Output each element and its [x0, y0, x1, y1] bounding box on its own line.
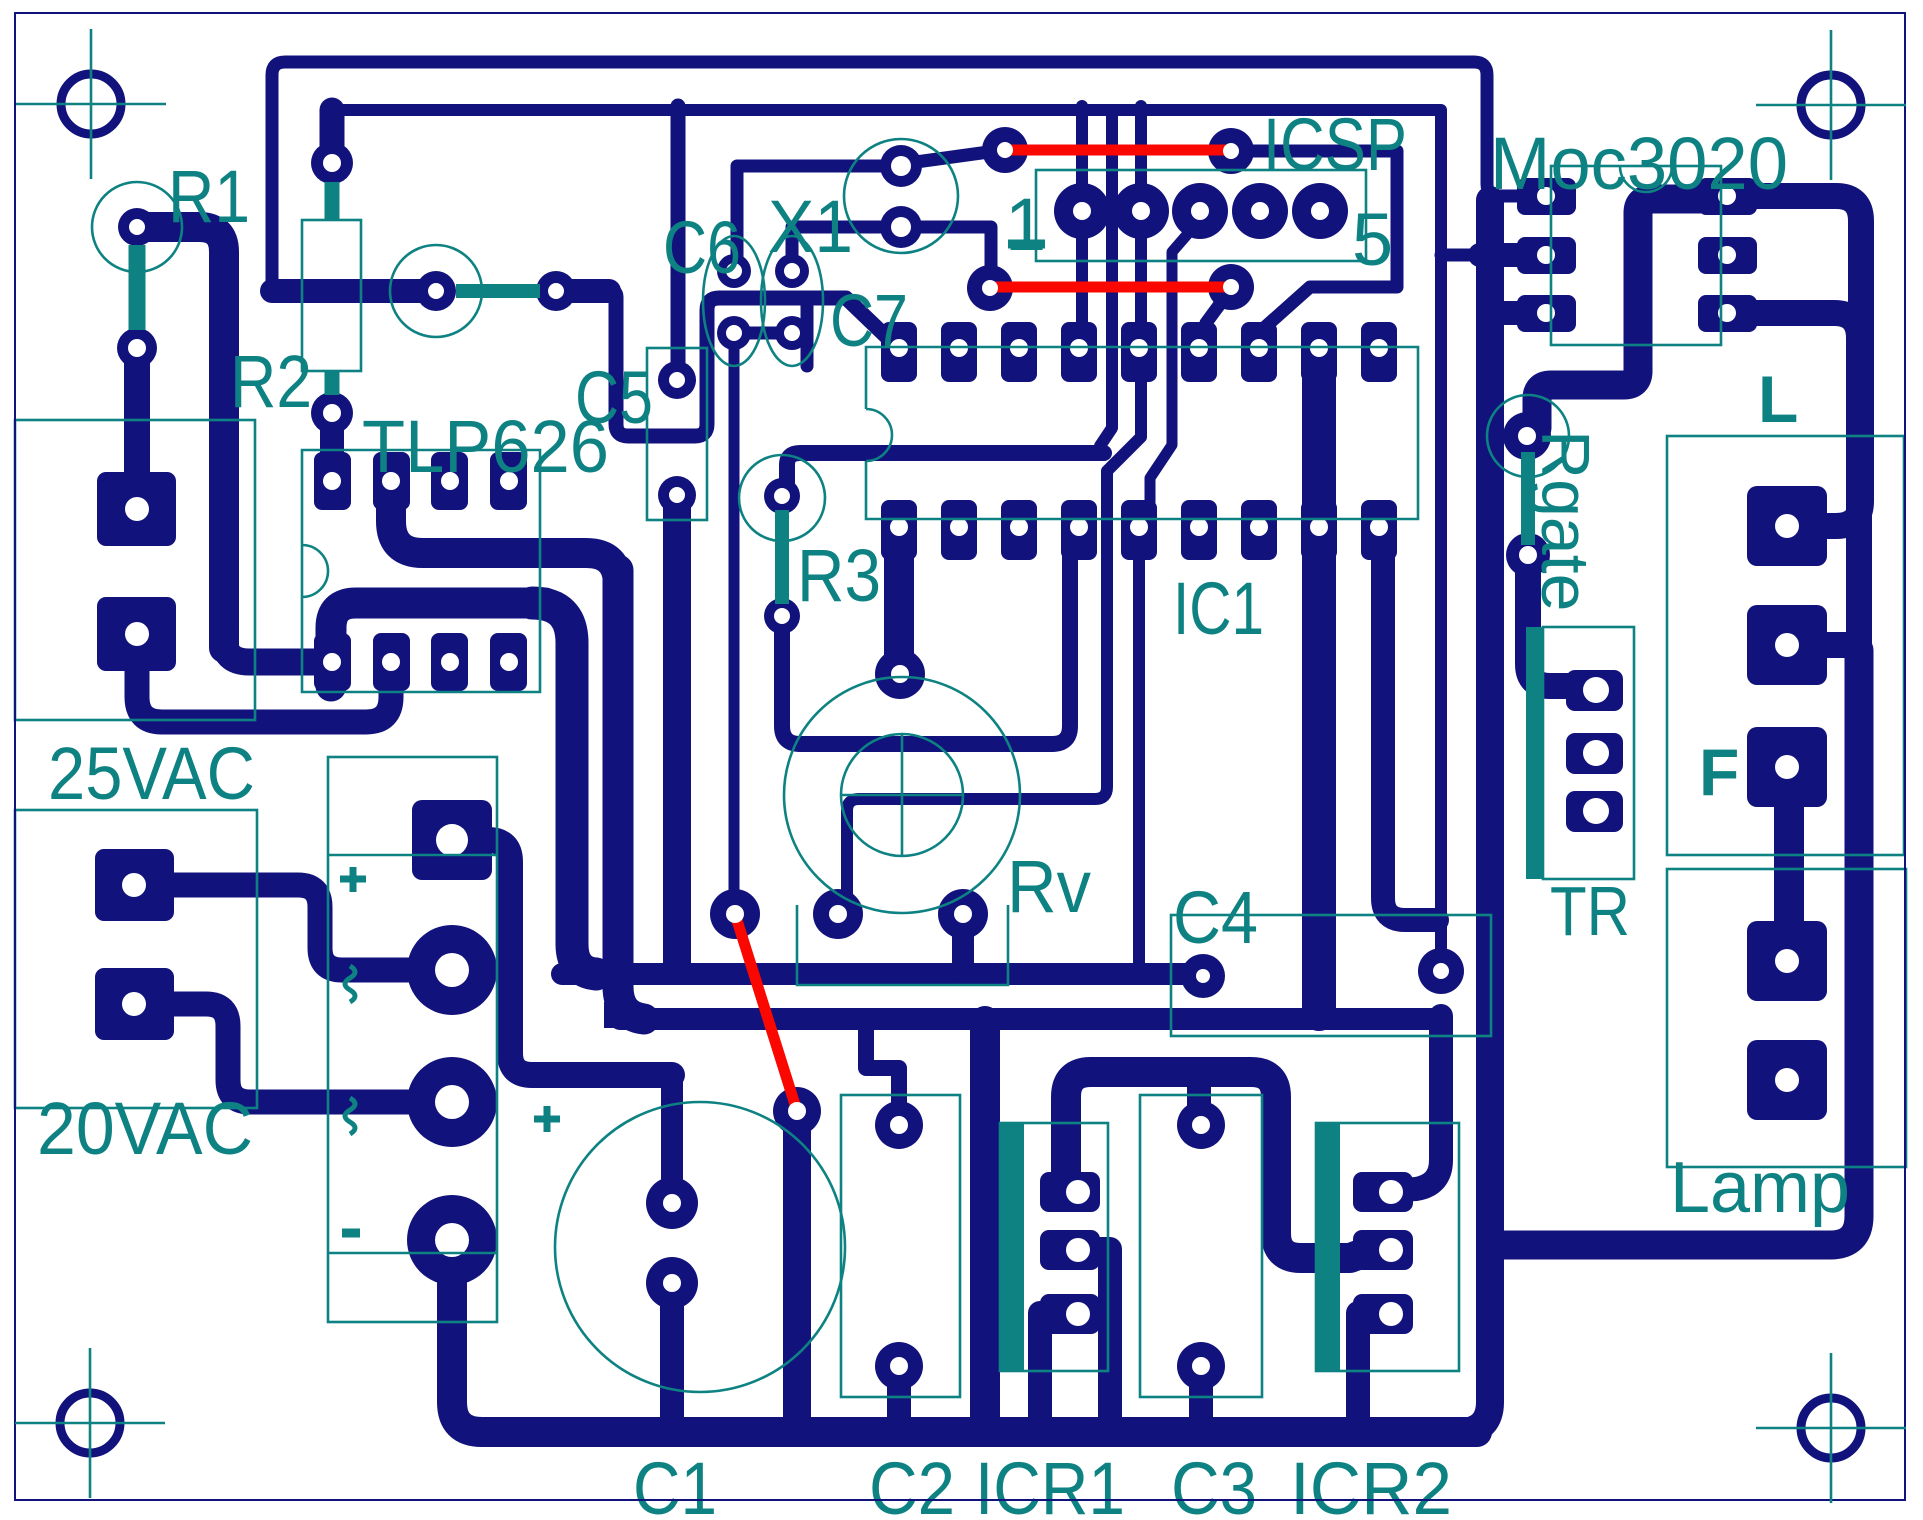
hole X1 [891, 156, 911, 176]
wire bus2 right end down to ICR2 pin1 [1385, 1016, 1441, 1191]
wire IC1 pin1 bottom to Rv wiper [884, 532, 914, 672]
IC1 pads top row [881, 322, 917, 382]
wire IC1 col8 wide vertical to bus2 [1302, 354, 1336, 1014]
hole Rv [891, 665, 909, 683]
resistor Rgate silk circle and body [1487, 395, 1569, 477]
wire red jumper 1 [1005, 145, 1231, 156]
svg-text:ICR1: ICR1 [975, 1447, 1125, 1520]
wire ICR1 pin1 / C3 pin1 / ICR2 pin2 bridge [1066, 1072, 1372, 1258]
capacitor C5 silk box [647, 348, 707, 520]
capacitor C7 pads [775, 254, 809, 288]
label terminal ~ [345, 966, 355, 1002]
opto TLP626 silk box [302, 450, 540, 692]
hole L/F [1775, 514, 1799, 538]
wire R1 top to TLP626 pin 5 row (y662 horizontal) [137, 227, 224, 648]
svg-text:C7: C7 [830, 279, 908, 362]
wire ICR1 pin3 to bottom bus [1040, 1313, 1072, 1430]
wire Rgate bottom to TR pin1 [1528, 557, 1580, 686]
capacitor C1 silk circle [555, 1102, 845, 1392]
wire C5 bottom to bus1 [663, 499, 691, 966]
wire C6 bottom / C7 bottom link bar [734, 327, 792, 340]
capacitor C6 pads [717, 254, 751, 288]
resistor R2 pads [311, 142, 353, 184]
via jumper3 bottom [773, 1087, 821, 1135]
label terminal + [340, 867, 366, 892]
wire IC1 pin9 bottom to C4 right line [1383, 532, 1437, 920]
hole C5 [669, 372, 685, 388]
wire 25VAC pin2 staircase to TLP p2b [137, 655, 391, 722]
connector L/F pads [1747, 486, 1827, 566]
wire Moc3020 pin3 tab to x1490 [1480, 243, 1520, 267]
IC1 silk box with notch [866, 347, 1418, 519]
svg-text:ICSP: ICSP [1263, 103, 1407, 186]
hole TLP626 top row [323, 472, 341, 490]
hole C6 [726, 263, 742, 279]
trimmer Rv bottom pads [813, 889, 863, 939]
relay ICR2 silk box and bar [1316, 1123, 1459, 1371]
svg-text:1: 1 [1005, 183, 1046, 266]
hole C7 [784, 263, 800, 279]
svg-text:L: L [1758, 362, 1798, 436]
wire X1 top to C6 top [737, 166, 898, 268]
hole R3 [774, 488, 790, 504]
wire wide vertical V_a down to bus1 [532, 603, 596, 974]
wire Moc3020 pin2 to L pad [1729, 196, 1861, 526]
via jumper2 right [1208, 264, 1254, 310]
capacitor C1 pads [646, 1177, 698, 1229]
hole vias jumper1 [997, 142, 1013, 158]
capacitor C7 silk ellipse [761, 236, 823, 366]
wire Moc3020 pin6 to Lamp middle pad and bottom rail [1729, 313, 1859, 645]
svg-text:Rgate: Rgate [1527, 430, 1603, 611]
hole C2 [890, 1116, 908, 1134]
wire D1 right lead toward C7/R3 [556, 279, 609, 303]
wire bus2 to bottom bus vertical x985 [970, 1021, 1000, 1430]
wire jumper D1 left lead from bus A vertical [272, 279, 430, 303]
optotriac Moc3020 silk box [1551, 166, 1721, 345]
connector L/F silk box [1667, 436, 1904, 855]
wire bus B branch to Moc3020 pin3 [1441, 249, 1480, 262]
capacitor C3 silk box [1140, 1095, 1262, 1397]
hole R1 [129, 219, 145, 235]
resistor R1 pads [118, 208, 156, 246]
triac TR silk box and bar [1543, 627, 1634, 879]
capacitor C6 silk ellipse [703, 236, 765, 366]
terminal block + pad [412, 800, 492, 880]
wire IC1 pin5 bottom to bus1 [1133, 532, 1145, 970]
wire X1 top diagonal to via of jumper 1 [916, 150, 1003, 162]
opto TLP626 pads bottom row [314, 633, 351, 691]
svg-text:Lamp: Lamp [1670, 1148, 1850, 1228]
wire via1 right to IC1 pin7 top [1233, 151, 1397, 350]
opto TLP626 pads top row [314, 452, 351, 510]
hole Rgate [1518, 427, 1536, 445]
hole C4 [1196, 969, 1210, 983]
wire ICR2 pin3 to bottom bus [1358, 1313, 1385, 1430]
wire bus1 y974 from V_a to C4 left pad [562, 963, 1200, 985]
svg-text:IC1: IC1 [1173, 567, 1264, 650]
wire Moc3020 internal wide path to Rgate top [1537, 199, 1700, 428]
wire Moc3020 pin5 tab to x1490 [1492, 301, 1520, 325]
hole C1 [663, 1194, 681, 1212]
hole Moc3020 [1537, 187, 1555, 205]
wire ICSP pin1 column x1082 [1076, 106, 1088, 350]
wire C1 pin2 to bottom bus [660, 1285, 684, 1430]
hole IC1 top row [890, 339, 908, 357]
wire C1 pin1 stub [661, 1075, 683, 1200]
hole R2 [323, 154, 341, 172]
wire y453 horizontal into R3 top pad [787, 453, 1104, 490]
wire top bus A: left vertical + top horizontal to Moc3020 pin1 [272, 62, 1520, 291]
hole vias jumper2 [982, 280, 998, 296]
wire red jumper 2 [990, 282, 1231, 293]
IC1 pads bottom row [881, 500, 917, 560]
hole IC1 bottom row [890, 518, 908, 536]
svg-text:Rv: Rv [1007, 845, 1091, 928]
resistor Rgate pads [1503, 412, 1551, 460]
terminal block ac/dc round pads [407, 925, 497, 1015]
connector 25VAC pads [97, 472, 176, 546]
wire ICSP pin2 long line to Rv left pad [847, 106, 1141, 910]
wire ICR1 pin2 to bottom bus [1072, 1249, 1110, 1430]
svg-text:Moc3020: Moc3020 [1490, 122, 1788, 205]
svg-text:F: F [1699, 735, 1739, 809]
jumper D1 pads [416, 271, 456, 311]
mounting hole top-right [1756, 30, 1906, 180]
connector 20VAC pads [95, 849, 174, 921]
hole TLP626 bottom row [323, 653, 341, 671]
wire H_b horizontal y662 through TLP p1b [224, 638, 330, 662]
capacitor C4 silk box [1171, 915, 1491, 1036]
mounting hole bottom-left [15, 1348, 165, 1498]
optotriac Moc3020 pads [1517, 178, 1576, 215]
via jumper1 left [982, 127, 1028, 173]
wire top bus B: from R2 top pad along y104 to C4 right pad [332, 110, 1441, 950]
connector 20VAC silk box [15, 810, 257, 1108]
hole 25VAC [125, 497, 149, 521]
wire C3 pin1 stub to bridge [1187, 1075, 1211, 1123]
svg-text:X1: X1 [768, 185, 853, 268]
via jumper2 left [967, 265, 1013, 311]
wire X1 bottom to C7 top [792, 227, 898, 268]
relay ICR1 silk box and bar [1000, 1123, 1108, 1371]
svg-text:TLP626: TLP626 [362, 405, 609, 488]
wire R2 bottom pad to TLP p1t [320, 415, 344, 478]
capacitor C5 pads [658, 361, 696, 399]
connector Lamp silk box [1667, 869, 1906, 1167]
terminal block silk box [328, 757, 497, 1322]
svg-text:ICR2: ICR2 [1290, 1447, 1452, 1520]
svg-text:C4: C4 [1173, 876, 1258, 959]
wire C2 pin1 link to bus2 [866, 1022, 899, 1123]
hole ICR1 [1066, 1180, 1090, 1204]
trimmer Rv inner circle with cross [841, 734, 963, 856]
crystal X1 pads [880, 145, 922, 187]
via jumper3 top [710, 889, 760, 939]
resistor R1 silk circle and body [92, 182, 182, 272]
mounting hole top-left [16, 29, 166, 179]
trimmer Rv big silk circle [784, 677, 1020, 913]
jumper D1 silk circle and body [390, 245, 482, 337]
wire red jumper 3 [735, 914, 797, 1111]
wire link D1 to R3 top (staircase y437/y455) [610, 291, 897, 436]
label C1 + [534, 1106, 560, 1132]
svg-text:5: 5 [1352, 198, 1393, 281]
wire C5 top feed from bus B [671, 106, 686, 378]
capacitor C3 pads [1177, 1101, 1225, 1149]
header ICSP silk box [1036, 170, 1366, 261]
capacitor C2 silk box [841, 1095, 960, 1397]
svg-text:25VAC: 25VAC [48, 732, 255, 815]
hole D1 [428, 283, 444, 299]
wire R3 bottom to IC1 pin4 bottom [782, 534, 1070, 744]
wire C1 positive feed from + terminal [470, 840, 672, 1075]
via jumper1 right [1208, 128, 1254, 174]
wire X1 case ground stub [801, 302, 814, 366]
svg-text:20VAC: 20VAC [37, 1087, 253, 1170]
mounting hole bottom-right [1756, 1353, 1906, 1503]
svg-text:C5: C5 [575, 356, 653, 439]
hole vias jumper3 [726, 905, 744, 923]
hole ICR2 [1379, 1180, 1403, 1204]
relay ICR1 pads [1040, 1172, 1100, 1212]
wire C3 pin2 to bottom bus [1189, 1364, 1213, 1430]
svg-text:R1: R1 [168, 155, 250, 238]
hole terminal block [436, 824, 468, 856]
label terminal ~ second [345, 1098, 355, 1134]
resistor R3 silk circle and body [739, 455, 825, 541]
wire bus B strand down to R3 top via y453 [1100, 110, 1112, 446]
wire 20VAC pin2 staircase to bridge ac2 [137, 1004, 408, 1102]
svg-text:R3: R3 [797, 534, 881, 617]
label terminal - [342, 1229, 360, 1238]
wire right wide vertical x1490 to bottom bus [1462, 200, 1490, 1432]
svg-text:R2: R2 [230, 340, 312, 423]
label 1 foot bar [1008, 240, 1045, 249]
wire TLP p1b tab up + H_a horizontal y603 [331, 603, 545, 686]
wire wide vertical V_b + bus2 to ICR2 area [618, 570, 644, 1019]
capacitor C2 pads [875, 1101, 923, 1149]
svg-text:C1: C1 [633, 1447, 717, 1520]
wire bottom ground bus [452, 1243, 1477, 1432]
relay ICR2 pads [1353, 1172, 1413, 1212]
svg-text:C2: C2 [869, 1447, 955, 1520]
wire red jumper3 lower via to bottom bus [783, 1114, 811, 1430]
hole C3 [1192, 1116, 1210, 1134]
svg-text:TR: TR [1550, 872, 1630, 950]
hole 20VAC [122, 873, 146, 897]
capacitor C4 pads [1181, 954, 1225, 998]
header ICSP pads [1054, 183, 1110, 239]
wire via2 right to IC1 pin6 top [1200, 289, 1231, 350]
hole TR [1583, 677, 1609, 703]
trimmer Rv wiper pad [875, 649, 925, 699]
wire 20VAC pin1 staircase to bridge ac1 [137, 885, 408, 970]
wire R1 bottom pad to 25VAC pin1 [124, 350, 150, 500]
connector Lamp pads [1747, 921, 1827, 1001]
crystal X1 silk circle [844, 139, 958, 253]
trimmer Rv silk box [797, 905, 1008, 985]
wire TLP p2t elbow down to wide vertical [391, 485, 618, 585]
svg-text:C3: C3 [1171, 1447, 1257, 1520]
triac TR pads [1566, 670, 1623, 711]
wire C6 bottom to red jumper3 via [729, 350, 740, 890]
wire X1 bottom to via of jumper 2 [910, 227, 991, 286]
wire ICSP pin3 jog to IC1 pin5 [1141, 222, 1198, 518]
hole Lamp [1775, 949, 1799, 973]
wire Rv right pad to bus1 [952, 912, 974, 972]
wire lamp bottom rail y1245 [1495, 650, 1859, 1245]
resistor R3 pads [764, 478, 800, 514]
resistor R2 silk body [302, 220, 361, 371]
svg-text:C6: C6 [663, 206, 741, 289]
hole ICSP [1073, 202, 1091, 220]
wire F pad down to Lamp pin1 [1774, 770, 1804, 958]
wire C2 pin2 to bottom bus [887, 1364, 911, 1430]
connector 25VAC silk box [15, 420, 255, 720]
